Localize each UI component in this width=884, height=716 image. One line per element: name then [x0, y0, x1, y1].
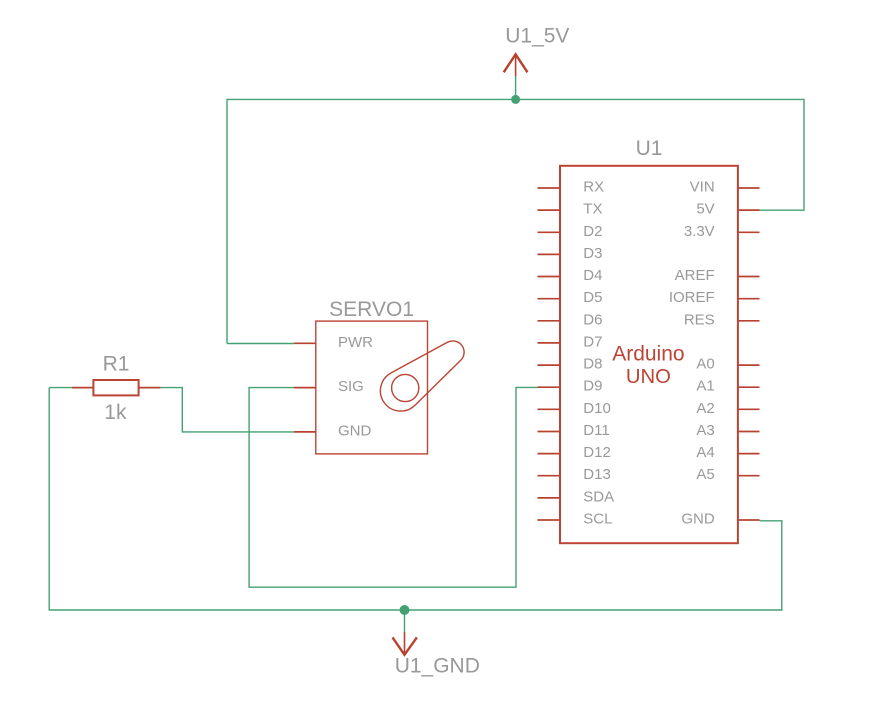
svg-text:D7: D7 [583, 333, 602, 350]
svg-text:D13: D13 [583, 466, 611, 483]
svg-text:A3: A3 [696, 422, 714, 439]
svg-text:D4: D4 [583, 267, 602, 284]
svg-text:R1: R1 [103, 353, 130, 376]
power flag U1_5V [504, 54, 528, 76]
svg-text:D6: D6 [583, 311, 602, 328]
wire 5V top horizontal [227, 99, 804, 343]
svg-text:D3: D3 [583, 245, 602, 262]
svg-text:UNO: UNO [626, 366, 671, 388]
ground flag U1_GND [404, 610, 406, 632]
pin SIG stub [294, 387, 316, 389]
svg-text:RX: RX [583, 179, 604, 196]
svg-text:3.3V: 3.3V [684, 223, 715, 240]
op-amp U1 Arduino UNO [538, 137, 760, 543]
wire SIG to D9 [249, 387, 537, 587]
svg-text:RES: RES [684, 311, 715, 328]
svg-text:VIN: VIN [690, 179, 715, 196]
svg-text:D12: D12 [583, 444, 611, 461]
svg-text:A2: A2 [696, 400, 714, 417]
svg-text:D2: D2 [583, 223, 602, 240]
servo horn [380, 341, 464, 411]
svg-text:U1_GND: U1_GND [395, 655, 480, 678]
svg-text:A5: A5 [696, 466, 714, 483]
svg-text:AREF: AREF [675, 267, 715, 284]
wire GND bus bottom [49, 388, 782, 610]
svg-text:U1: U1 [636, 137, 663, 160]
svg-text:GND: GND [681, 511, 715, 528]
svg-text:1k: 1k [104, 401, 127, 424]
svg-text:U1_5V: U1_5V [505, 25, 569, 48]
svg-text:SDA: SDA [583, 488, 614, 505]
wire R1 left green segment [49, 387, 71, 389]
U1 body box [560, 166, 738, 543]
svg-text:D8: D8 [583, 356, 602, 373]
node junction dot 5V [511, 95, 520, 104]
svg-text:A0: A0 [696, 356, 714, 373]
svg-text:GND: GND [338, 422, 372, 439]
node junction dot GND [400, 605, 410, 615]
svg-text:D5: D5 [583, 289, 602, 306]
svg-text:SERVO1: SERVO1 [329, 298, 414, 321]
svg-text:PWR: PWR [338, 334, 373, 351]
wire R1 right to servo GND [160, 388, 294, 432]
svg-text:SCL: SCL [583, 511, 612, 528]
servo SERVO1 [294, 298, 464, 454]
servo body box [316, 321, 428, 454]
svg-text:D10: D10 [583, 400, 611, 417]
svg-text:5V: 5V [696, 201, 714, 218]
resistor R1 [72, 353, 161, 425]
svg-text:SIG: SIG [338, 378, 364, 395]
svg-text:IOREF: IOREF [669, 289, 715, 306]
svg-text:Arduino: Arduino [612, 342, 684, 365]
right pin stubs [738, 188, 760, 520]
svg-text:D11: D11 [583, 422, 609, 439]
svg-text:D9: D9 [583, 378, 602, 395]
pin GND stub [294, 431, 316, 433]
svg-text:A4: A4 [696, 444, 714, 461]
svg-text:TX: TX [583, 201, 602, 218]
left pin stubs [538, 188, 561, 520]
svg-text:A1: A1 [696, 378, 714, 395]
pin PWR stub [294, 342, 316, 344]
wire PWR green segment [227, 343, 294, 345]
